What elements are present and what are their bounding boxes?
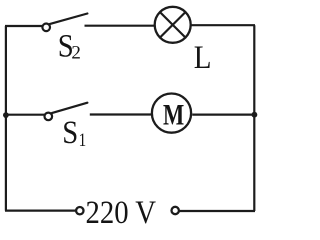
label S2	[58, 26, 81, 63]
wire top-middle segment	[85, 25, 156, 27]
wire bottom-left segment	[5, 210, 76, 212]
battery terminal left	[76, 207, 83, 214]
battery terminal right	[172, 207, 179, 214]
node right junction	[252, 112, 258, 118]
lamp L	[155, 7, 191, 43]
wire top-right segment	[191, 24, 256, 26]
switch S2	[42, 14, 87, 32]
motor M	[152, 94, 191, 133]
wire top-left segment	[5, 25, 42, 27]
wire middle-right segment	[192, 113, 254, 115]
svg-text:2: 2	[71, 42, 81, 63]
wire left vertical	[5, 26, 7, 211]
svg-text:L: L	[194, 38, 212, 75]
label S1	[62, 113, 86, 150]
wire bottom-right segment	[179, 210, 255, 212]
svg-text:M: M	[163, 97, 184, 131]
svg-text:S: S	[62, 113, 78, 150]
node left junction	[3, 112, 9, 118]
switch S1	[45, 103, 88, 121]
wire middle segment to motor	[90, 113, 151, 115]
wire right vertical	[253, 25, 255, 211]
wire middle-left segment	[6, 114, 44, 116]
svg-text:220 V: 220 V	[86, 195, 157, 228]
svg-text:1: 1	[79, 130, 87, 151]
